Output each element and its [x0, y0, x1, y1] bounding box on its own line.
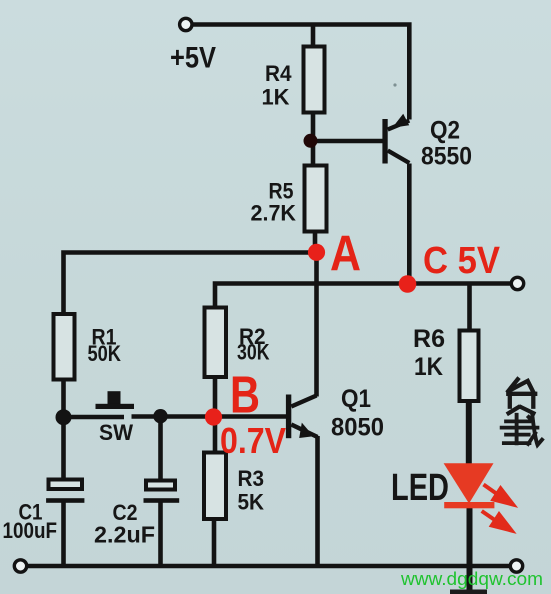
svg-text:1K: 1K — [262, 85, 290, 110]
svg-text:1K: 1K — [414, 353, 443, 381]
svg-text:B: B — [230, 367, 260, 425]
svg-text:SW: SW — [99, 420, 133, 445]
svg-text:100uF: 100uF — [3, 518, 58, 543]
svg-text:Q1: Q1 — [341, 385, 371, 413]
svg-text:R6: R6 — [413, 325, 445, 353]
svg-text:2.2uF: 2.2uF — [94, 522, 155, 548]
svg-text:8050: 8050 — [331, 414, 384, 442]
svg-text:www.dgdqw.com: www.dgdqw.com — [400, 568, 543, 589]
svg-text:50K: 50K — [88, 341, 122, 366]
svg-text:0.7V: 0.7V — [220, 420, 286, 461]
svg-text:LED: LED — [391, 467, 449, 509]
svg-text:Q2: Q2 — [430, 117, 460, 145]
svg-text:2.7K: 2.7K — [251, 201, 297, 226]
svg-text:30K: 30K — [237, 340, 270, 365]
svg-text:R3: R3 — [238, 466, 265, 491]
svg-text:5K: 5K — [238, 490, 265, 515]
svg-text:8550: 8550 — [421, 143, 472, 171]
svg-text:A: A — [330, 226, 361, 282]
svg-text:R4: R4 — [265, 61, 292, 86]
svg-text:+5V: +5V — [170, 42, 216, 75]
svg-text:C 5V: C 5V — [423, 240, 501, 282]
